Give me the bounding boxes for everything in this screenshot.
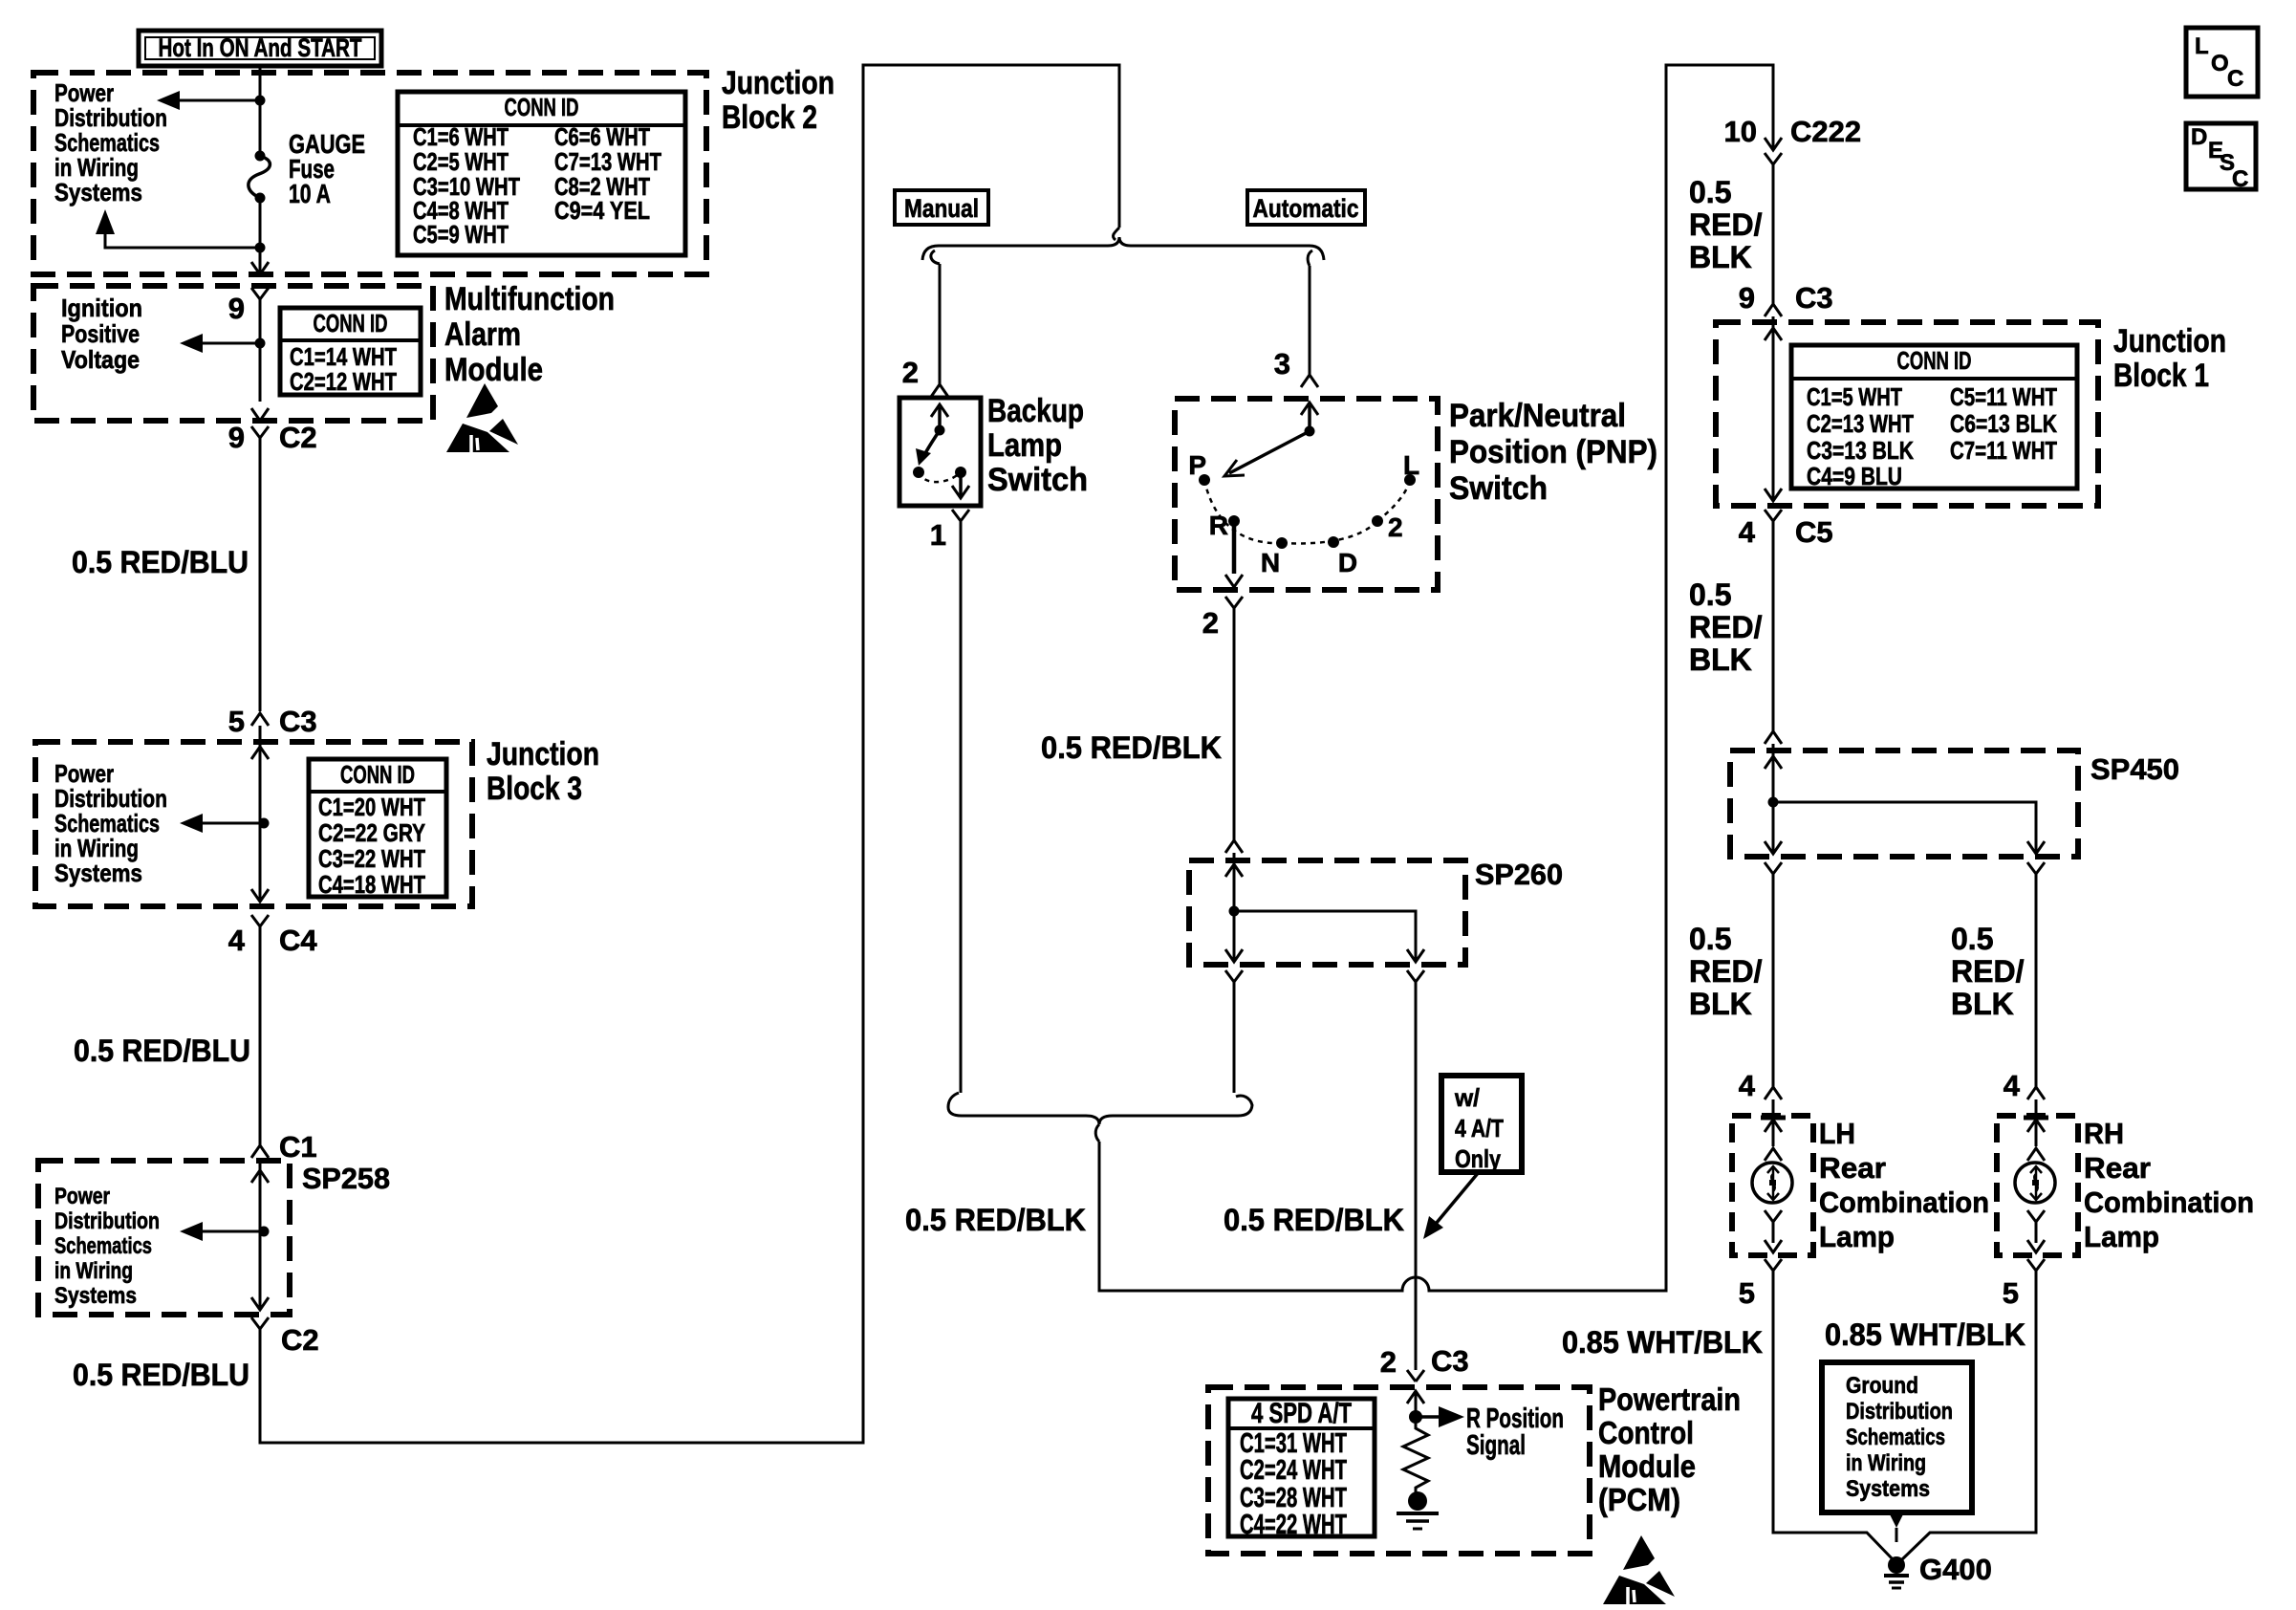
svg-text:0.5 RED/BLU: 0.5 RED/BLU (74, 1033, 250, 1068)
SP450 internal wires (1772, 744, 1775, 852)
connector below SP450 (right leg) (2027, 862, 2045, 874)
PNP switch: pin 2 output (R position) (1232, 521, 1237, 574)
wire: C222 down to C3 (0.5 RED/BLK) (1772, 163, 1775, 304)
svg-text:2: 2 (902, 356, 919, 389)
fuse GAUGE 10A: element curve (249, 156, 271, 198)
arrow: Power Distribution (left, JB3) (201, 822, 264, 825)
wire through Junction Block 1 (1772, 316, 1775, 501)
PCM input arrow (1415, 1391, 1418, 1417)
svg-text:C3: C3 (1431, 1344, 1469, 1378)
svg-text:CONN ID: CONN ID (340, 760, 415, 789)
svg-text:Combination: Combination (2084, 1186, 2254, 1219)
LH lamp bulb (backup lamp) (1752, 1163, 1792, 1203)
svg-text:2: 2 (1388, 512, 1403, 542)
svg-text:Signal: Signal (1466, 1430, 1526, 1461)
svg-text:Power: Power (54, 1184, 110, 1209)
wire: Automatic branch down to PNP pin 3 (1309, 266, 1311, 375)
svg-text:Park/Neutral: Park/Neutral (1449, 398, 1626, 434)
svg-text:Systems: Systems (1846, 1476, 1930, 1502)
svg-text:C1=20 WHT: C1=20 WHT (318, 793, 425, 821)
svg-text:9: 9 (1739, 281, 1755, 315)
svg-text:C4=22 WHT: C4=22 WHT (1240, 1510, 1347, 1540)
wire through Junction Block 3 (259, 726, 262, 902)
svg-text:0.85 WHT/BLK: 0.85 WHT/BLK (1562, 1325, 1763, 1360)
svg-text:Lamp: Lamp (987, 427, 1062, 464)
svg-text:1: 1 (930, 518, 946, 552)
svg-text:RED/: RED/ (1689, 954, 1763, 989)
CONN ID table of Junction Block 1 (1791, 345, 2077, 489)
PNP contact L (1404, 474, 1416, 486)
connector 9 / C2 below Multifunction Alarm Module (251, 426, 269, 438)
svg-text:RH: RH (2084, 1117, 2124, 1150)
svg-text:5: 5 (1739, 1276, 1755, 1310)
RH lamp: lower terminal (2027, 1210, 2045, 1222)
connector above splice SP260 (1225, 840, 1243, 853)
4 SPD A/T table inside PCM (1228, 1399, 1375, 1536)
svg-text:Junction: Junction (2113, 323, 2226, 359)
component box: Junction Block 2 (dashed) (33, 73, 706, 274)
svg-text:0.5 RED/BLK: 0.5 RED/BLK (1224, 1203, 1404, 1237)
svg-text:BLK: BLK (1689, 642, 1752, 677)
svg-text:Block 3: Block 3 (487, 771, 582, 807)
svg-text:CONN ID: CONN ID (1897, 346, 1972, 375)
backup lamp switch: movable contact (935, 425, 945, 436)
svg-text:Positive: Positive (61, 319, 140, 348)
svg-text:Module: Module (1598, 1448, 1696, 1484)
LOC tag box (top right) (2186, 28, 2258, 97)
ESD sensitive device symbol (below PCM) (1623, 1535, 1655, 1570)
wire: SP450 right to RH lamp (0.5 RED/BLK) (2035, 874, 2038, 1087)
arrow: Power Distribution (left, SP258) (201, 1230, 264, 1233)
svg-text:P: P (1188, 450, 1206, 480)
component box: Park/Neutral Position (PNP) Switch (dashed) (1175, 399, 1438, 590)
svg-text:SP450: SP450 (2090, 752, 2179, 786)
svg-text:Ground: Ground (1846, 1373, 1918, 1399)
svg-text:Ignition: Ignition (61, 294, 142, 322)
svg-text:RED/: RED/ (1689, 610, 1763, 644)
backup lamp switch: fixed contacts and travel arc (913, 467, 924, 478)
svg-text:Switch: Switch (1449, 470, 1548, 507)
svg-text:2: 2 (1380, 1345, 1397, 1379)
backup lamp switch: pin 2 terminal arrow (up) (938, 407, 942, 430)
svg-text:C2=12 WHT: C2=12 WHT (290, 367, 397, 396)
svg-text:C7=11 WHT: C7=11 WHT (1950, 436, 2057, 465)
svg-text:0.5 RED/BLK: 0.5 RED/BLK (1041, 730, 1222, 765)
svg-text:C: C (2227, 66, 2243, 92)
svg-text:Lamp: Lamp (1819, 1220, 1895, 1253)
ground G400 (1888, 1556, 1905, 1574)
wire: SP260 left leg down to merge brace (1233, 982, 1236, 1093)
component box: Junction Block 1 (dashed) (1716, 322, 2098, 506)
wire: C5 down to SP450 (0.5 RED/BLK) (1772, 521, 1775, 731)
svg-text:C3=22 WHT: C3=22 WHT (318, 844, 425, 873)
component box: Multifunction Alarm Module (dashed) (33, 286, 433, 421)
svg-text:0.5 RED/BLU: 0.5 RED/BLU (73, 1358, 249, 1392)
svg-text:C9=4 YEL: C9=4 YEL (554, 196, 650, 225)
connector pin 1 of Backup Lamp Switch (952, 510, 969, 521)
svg-text:C5: C5 (1795, 515, 1833, 549)
wire: C2 down, right along bottom, up to top of page (260, 65, 1119, 1443)
svg-text:SP258: SP258 (302, 1162, 390, 1195)
svg-text:G400: G400 (1919, 1553, 1992, 1586)
backup lamp switch: pin 1 terminal arrow (down) (959, 472, 963, 496)
arrow: Power Distribution feed (left) in Junction Block 2 (178, 99, 260, 102)
LH lamp: lower terminal (1765, 1210, 1782, 1222)
PNP contact 2 (1372, 515, 1383, 527)
wire: RH lamp to G400 (0.85 WHT/BLK) (1901, 1271, 2036, 1560)
svg-text:C4=18 WHT: C4=18 WHT (318, 870, 425, 899)
wire: C2 to C3 (0.5 RED/BLU) (259, 438, 262, 711)
SP260 internal wires (1233, 853, 1236, 960)
wire: Manual branch down to Backup Lamp Switch pin 2 (939, 264, 942, 384)
connector below SP260 (left leg) (1225, 970, 1243, 982)
svg-text:Lamp: Lamp (2084, 1220, 2159, 1253)
svg-text:Position (PNP): Position (PNP) (1449, 434, 1657, 470)
connector 4 / C5 below Junction Block 1 (1765, 510, 1782, 521)
arrow: R Position Signal (1416, 1415, 1439, 1419)
PNP switch: input arrow and rotor (1308, 405, 1311, 426)
connector pin 5 of RH lamp (2027, 1259, 2045, 1271)
svg-text:C2: C2 (281, 1323, 319, 1357)
svg-text:C3: C3 (1795, 281, 1833, 315)
svg-text:9: 9 (228, 292, 245, 325)
svg-text:Powertrain: Powertrain (1598, 1382, 1741, 1417)
brace: merge of Manual / PNP branches (948, 1093, 1252, 1124)
svg-text:Distribution: Distribution (1846, 1399, 1953, 1425)
svg-text:RED/: RED/ (1951, 954, 2025, 989)
svg-text:Junction: Junction (722, 65, 834, 101)
svg-text:Automatic: Automatic (1253, 194, 1359, 223)
component box: Junction Block 3 (dashed) (35, 742, 472, 906)
connector below SP450 (left leg) (1765, 862, 1782, 874)
svg-text:R: R (1209, 511, 1228, 540)
svg-text:C4=9 BLU: C4=9 BLU (1807, 462, 1902, 490)
callout box: w/ 4 A/T Only (1441, 1076, 1522, 1172)
svg-text:5: 5 (2003, 1276, 2019, 1310)
svg-text:Alarm: Alarm (444, 316, 521, 353)
svg-text:5: 5 (228, 705, 245, 738)
svg-text:Junction: Junction (487, 736, 599, 772)
RH lamp bulb (backup lamp) (2015, 1163, 2055, 1203)
splice box SP260 (dashed) (1189, 860, 1465, 965)
wire: C4 down to C1 (0.5 RED/BLU) (259, 926, 262, 1145)
svg-text:Systems: Systems (54, 1283, 137, 1309)
svg-text:C1: C1 (279, 1130, 317, 1164)
svg-text:C6=13 BLK: C6=13 BLK (1950, 409, 2057, 438)
svg-text:4 A/T: 4 A/T (1455, 1114, 1504, 1142)
svg-text:Manual: Manual (904, 194, 979, 223)
svg-text:C3: C3 (279, 705, 317, 738)
svg-text:C222: C222 (1790, 115, 1861, 148)
wire: merged branch down and right to RH riser (0.5 RED/BLK), with hop over PCM wire (1099, 65, 1773, 1291)
ground dot inside PCM (1408, 1491, 1427, 1511)
wire through SP258 (259, 1158, 262, 1310)
fuse GAUGE 10A: bottom terminal dot (255, 193, 266, 204)
svg-text:Multifunction: Multifunction (444, 281, 615, 317)
label box: Hot In ON And START (139, 31, 381, 66)
svg-text:(PCM): (PCM) (1598, 1482, 1680, 1517)
resistor (PCM pull-up to R position signal) (1403, 1417, 1428, 1492)
svg-text:0.5 RED/BLU: 0.5 RED/BLU (72, 545, 249, 579)
svg-text:Control: Control (1598, 1415, 1694, 1450)
PNP contact D (1328, 536, 1339, 548)
wire: Backup Lamp Switch pin 1 down to merge brace (960, 521, 963, 1093)
arrow up (Power Distribution return) (96, 209, 115, 234)
connector below SP260 (right leg) (1407, 970, 1424, 982)
svg-text:4 SPD A/T: 4 SPD A/T (1251, 1398, 1352, 1429)
svg-text:Module: Module (444, 352, 543, 388)
svg-text:L: L (2195, 33, 2209, 59)
PNP contact N (1276, 537, 1288, 549)
svg-text:in Wiring: in Wiring (1846, 1450, 1926, 1476)
svg-text:C2=24 WHT: C2=24 WHT (1240, 1455, 1347, 1486)
svg-text:10: 10 (1724, 115, 1757, 148)
svg-text:10 A: 10 A (289, 179, 331, 208)
wire: LH lamp to G400 (0.85 WHT/BLK) (1773, 1271, 1894, 1560)
connector pin 9 into Multifunction Alarm Module (female) (251, 288, 269, 299)
svg-text:in Wiring: in Wiring (54, 1258, 133, 1284)
svg-text:4: 4 (1739, 515, 1756, 549)
PNP contact R (1228, 515, 1240, 527)
svg-text:Switch: Switch (987, 462, 1088, 498)
svg-text:RED/: RED/ (1689, 207, 1763, 242)
CONN ID table of Multifunction Alarm Module (280, 308, 421, 395)
svg-text:0.5: 0.5 (1689, 175, 1731, 209)
CONN ID table of Junction Block 3 (309, 759, 446, 897)
svg-text:w/: w/ (1454, 1083, 1480, 1112)
svg-text:Schematics: Schematics (1846, 1425, 1945, 1450)
wire: SP260 right leg down to PCM C3 (1415, 982, 1418, 1370)
svg-text:C2=22 GRY: C2=22 GRY (318, 818, 425, 847)
svg-text:C5=9 WHT: C5=9 WHT (413, 220, 509, 249)
splice box SP258 (dashed) (38, 1161, 290, 1315)
wire: feed to Power Distribution return arrow (105, 232, 260, 248)
junction dot at (272,259) (255, 243, 266, 253)
wire: MAM down to box edge with arrow (251, 408, 269, 421)
svg-text:LH: LH (1819, 1117, 1855, 1150)
svg-text:Block 1: Block 1 (2113, 358, 2209, 394)
wire: fuse to lower junction (259, 198, 262, 248)
svg-text:Rear: Rear (1819, 1151, 1886, 1185)
connector above splice SP450 (1765, 731, 1782, 744)
svg-text:0.5: 0.5 (1951, 922, 1993, 956)
ESD sensitive device symbol (below Multifunction Alarm Module) (466, 383, 498, 418)
svg-text:C2: C2 (279, 421, 317, 454)
PNP contact P (1199, 474, 1210, 486)
svg-text:Voltage: Voltage (61, 345, 140, 374)
brace: split of ignition feed to Manual / Automatic (1113, 228, 1119, 240)
label box: Manual (895, 190, 988, 225)
svg-text:D: D (1338, 548, 1357, 577)
svg-text:Backup: Backup (987, 393, 1084, 429)
connector C1 above splice SP258 (251, 1145, 269, 1158)
svg-text:3: 3 (1274, 347, 1290, 381)
arrow: Ignition Positive Voltage (left) (201, 342, 260, 345)
DESC tag box (top right) (2186, 123, 2256, 189)
svg-text:Distribution: Distribution (54, 1208, 160, 1234)
svg-text:4: 4 (228, 924, 246, 957)
connector pin 5 of LH lamp (1765, 1259, 1782, 1271)
arrow from Ground Distribution box to G400 (1889, 1512, 1904, 1528)
svg-text:BLK: BLK (1689, 987, 1752, 1021)
wire: junction down to JB2 edge with arrow (259, 248, 262, 274)
svg-text:Schematics: Schematics (54, 1233, 152, 1259)
svg-text:C2=13 WHT: C2=13 WHT (1807, 409, 1914, 438)
wire: SP450 left to LH lamp (0.5 RED/BLK) (1772, 874, 1775, 1087)
connector 5 / C3 above Junction Block 3 (251, 713, 269, 726)
ground symbol inside PCM (1397, 1512, 1439, 1515)
PNP travel arc (dashed) (1204, 480, 1410, 543)
svg-text:0.5: 0.5 (1689, 577, 1731, 612)
connector pin 2 of PNP switch (1225, 597, 1243, 608)
CONN ID table of Junction Block 2 (398, 92, 685, 255)
svg-text:0.5 RED/BLK: 0.5 RED/BLK (905, 1203, 1086, 1237)
svg-text:4: 4 (2004, 1069, 2021, 1102)
junction dot at (272,359) (255, 338, 266, 349)
arrow from w/4AT Only box to PCM wire (1436, 1172, 1479, 1224)
svg-text:C1=5 WHT: C1=5 WHT (1807, 382, 1902, 411)
splice box SP450 (dashed) (1730, 751, 2078, 857)
RH lamp: terminal bar and arrow (2024, 1116, 2048, 1120)
svg-text:Systems: Systems (54, 859, 142, 887)
svg-text:D: D (2191, 124, 2207, 150)
label box: Ground Distribution Schematics in Wiring Systems (1822, 1362, 1972, 1512)
svg-text:C3=13 BLK: C3=13 BLK (1807, 436, 1914, 465)
svg-text:N: N (1261, 548, 1280, 577)
fuse GAUGE 10A: top terminal dot (255, 151, 266, 162)
svg-text:Hot In ON And START: Hot In ON And START (159, 33, 362, 62)
wire: Hot box to fuse (vertical at x=272) (259, 66, 262, 156)
svg-text:L: L (1403, 450, 1419, 480)
wire: PNP pin 2 down to SP260 (0.5 RED/BLK) (1233, 608, 1236, 840)
svg-text:0.5: 0.5 (1689, 922, 1731, 956)
wire hook: Automatic branch start (1308, 250, 1312, 266)
label box: Automatic (1247, 190, 1365, 225)
component box: LH Rear Combination Lamp (dashed) (1732, 1116, 1813, 1255)
svg-text:9: 9 (228, 421, 245, 454)
svg-text:Combination: Combination (1819, 1186, 1989, 1219)
LH lamp: terminal bar and arrow (1761, 1116, 1786, 1120)
component box: RH Rear Combination Lamp (dashed) (1997, 1116, 2078, 1255)
svg-text:BLK: BLK (1689, 240, 1752, 274)
component box: Backup Lamp Switch (899, 398, 981, 506)
svg-text:4: 4 (1739, 1069, 1756, 1102)
svg-text:BLK: BLK (1951, 987, 2014, 1021)
svg-text:Only: Only (1455, 1144, 1501, 1173)
svg-text:CONN ID: CONN ID (505, 93, 579, 121)
wire hook: Manual branch start (931, 250, 940, 264)
svg-text:CONN ID: CONN ID (314, 309, 388, 337)
svg-text:C4: C4 (279, 924, 317, 957)
junction dot at (272,105) (255, 96, 266, 106)
svg-text:Systems: Systems (54, 178, 142, 207)
svg-text:0.85 WHT/BLK: 0.85 WHT/BLK (1825, 1317, 2025, 1352)
junction dot at (276,861) (259, 818, 270, 829)
svg-text:SP260: SP260 (1475, 858, 1563, 891)
junction dot at (276,1288) (259, 1227, 270, 1237)
junction dot at PCM input (1409, 1410, 1422, 1424)
svg-text:Block 2: Block 2 (722, 99, 817, 136)
svg-text:C: C (2232, 166, 2248, 192)
svg-text:2: 2 (1202, 606, 1219, 640)
connector C2 below SP258 (251, 1317, 269, 1329)
connector 4 / C4 below Junction Block 3 (251, 915, 269, 926)
component box: Powertrain Control Module PCM (dashed) (1208, 1387, 1590, 1554)
svg-text:O: O (2211, 51, 2229, 76)
svg-text:Rear: Rear (2084, 1151, 2151, 1185)
svg-text:C5=11 WHT: C5=11 WHT (1950, 382, 2057, 411)
